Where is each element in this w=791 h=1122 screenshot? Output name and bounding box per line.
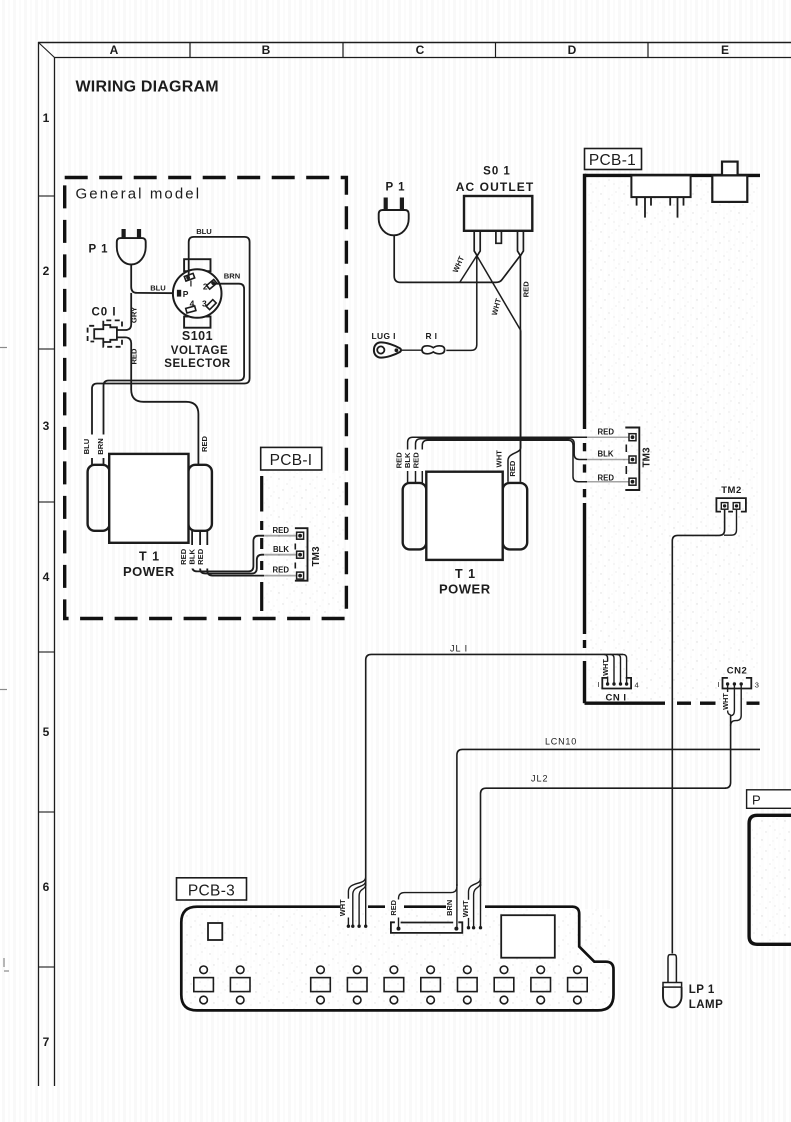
PCB-1 label box (585, 149, 642, 170)
svg-text:SELECTOR: SELECTOR (164, 358, 231, 370)
TM3 main terminal 2 (629, 456, 636, 463)
stipple texture PCB-2 area (752, 818, 791, 941)
svg-text:E: E (721, 43, 729, 57)
PCB-1 board bottom edge (with dashed sections) (585, 702, 760, 705)
svg-text:T 1: T 1 (139, 550, 160, 564)
border corner diagonal (39, 43, 55, 58)
AC outlet S01 body (464, 196, 532, 231)
transformer T1 (general) left winding (88, 465, 110, 531)
svg-text:2: 2 (203, 281, 208, 291)
row divider 2/3 (39, 348, 55, 350)
svg-text:RED: RED (598, 427, 615, 436)
push switch S5 (384, 966, 404, 1004)
svg-text:P 1: P 1 (89, 244, 109, 256)
S101 terminal 2 (207, 279, 217, 289)
svg-text:RED: RED (522, 281, 531, 298)
PCB-3 wire pins (WHT group dots) (347, 925, 368, 928)
label RED (at T1) (511, 459, 520, 478)
label BLU (at T1) (84, 435, 94, 459)
PCB-3 connector pins (397, 927, 459, 931)
lamp LP1 (663, 955, 682, 1008)
wire WHT P1 plug to S01 right pin (394, 236, 520, 282)
svg-text:3: 3 (43, 419, 50, 433)
svg-text:B: B (262, 43, 271, 57)
svg-text:BLU: BLU (196, 227, 212, 236)
svg-text:R I: R I (426, 331, 438, 341)
svg-text:General model: General model (76, 186, 202, 203)
wire BRN S101 pin2 right and down to T1 (104, 284, 245, 465)
svg-text:BLK: BLK (597, 450, 613, 459)
svg-text:T 1: T 1 (455, 567, 476, 581)
wire BLK T1 to TM3 terminal 2 (general) (200, 531, 296, 574)
IC pins (637, 197, 684, 218)
svg-text:WHT: WHT (461, 900, 470, 917)
labels RED BLK RED (T1m top-left) (397, 450, 424, 472)
stipple texture inside general PCB-1 (264, 473, 344, 615)
CN2 pins (726, 682, 743, 685)
wire BLK T1m to TM3 terminal 2 (416, 439, 630, 483)
PCB-1 label box (general) (261, 447, 322, 470)
wire P1 down to BLU junction (131, 264, 177, 293)
svg-text:RED: RED (389, 899, 398, 915)
transformer T1 (middle) core (426, 472, 502, 560)
svg-text:7: 7 (43, 1035, 50, 1049)
svg-text:GRY: GRY (130, 307, 139, 323)
PCB-2 label box (747, 790, 791, 809)
svg-text:1: 1 (43, 111, 50, 125)
wire JL2 horizontal to PCB-3 (481, 788, 727, 886)
label WHT (CN2) (724, 693, 732, 710)
PCB-1 board left edge (with dashed sections) (583, 174, 586, 704)
svg-text:BLK: BLK (273, 545, 289, 554)
svg-text:4: 4 (43, 570, 50, 584)
wire RED T1m to TM3 terminal 1 (408, 437, 629, 483)
wire BLU S101 pin1 up over to right and down to T1 (92, 237, 250, 465)
small square component on PCB-3 (208, 923, 222, 940)
wire LCN10 split RED branch into PCB-3 (399, 887, 457, 929)
wire CN2 bundle down to JL2 (725, 715, 731, 788)
svg-text:LUG I: LUG I (372, 331, 396, 341)
border inner top line (54, 57, 791, 59)
push switch S4 (347, 966, 367, 1004)
svg-text:I: I (718, 680, 720, 689)
column divider D/E (647, 43, 649, 58)
push switch S1 (194, 966, 214, 1004)
svg-text:3: 3 (755, 681, 759, 690)
push switch S2 (230, 966, 250, 1004)
wire WHT diagonal S01 left pin to P1 wire (460, 256, 477, 283)
connector C01 dashed mating outline (88, 320, 122, 346)
connector CN2 bracket (723, 678, 752, 689)
transformer T1 (middle) left winding (403, 483, 427, 550)
svg-text:C: C (416, 43, 425, 57)
svg-text:JL2: JL2 (531, 774, 549, 784)
svg-text:D: D (568, 43, 577, 57)
S101 terminal 3 (206, 300, 216, 310)
row divider 6/7 (39, 966, 55, 968)
svg-text:CN I: CN I (606, 693, 627, 704)
PCB-1 board top edge (585, 174, 761, 177)
plug P1 (general) (117, 229, 146, 265)
push switch S3 (311, 966, 331, 1004)
svg-text:BRN: BRN (224, 272, 240, 281)
svg-text:3: 3 (202, 298, 207, 308)
column divider B/C (342, 43, 344, 58)
svg-text:LAMP: LAMP (689, 999, 724, 1011)
svg-text:TM3: TM3 (311, 546, 322, 566)
svg-text:LP 1: LP 1 (689, 984, 715, 996)
PCB-2 board outline (749, 815, 791, 944)
svg-text:RED: RED (196, 548, 205, 565)
svg-text:4: 4 (635, 681, 639, 690)
S01 right pin (518, 231, 524, 256)
svg-text:AC OUTLET: AC OUTLET (456, 180, 535, 194)
wire TM2 right terminal (724, 509, 737, 535)
label BRN (at T1) (99, 435, 109, 459)
svg-text:WHT: WHT (721, 693, 730, 710)
push switch S9 (531, 966, 551, 1004)
wire RED C01 down to T1 right winding (117, 337, 198, 464)
wire RED S01 right pin down to T1 right winding (519, 256, 521, 482)
General model dashed enclosure box (65, 178, 347, 619)
svg-text:2: 2 (43, 264, 50, 278)
S101 terminal P (177, 290, 181, 297)
push switch S8 (494, 966, 514, 1004)
push switch S6 (421, 966, 441, 1004)
svg-text:RED: RED (273, 566, 290, 575)
wire WHT jog into T1 right winding (508, 330, 521, 482)
wire LUG1 to R1 (401, 349, 422, 351)
PCB-3 board outline (181, 907, 613, 1011)
svg-text:LCN10: LCN10 (545, 737, 577, 747)
plug P1 (middle) (379, 198, 409, 236)
CN1 pins (606, 682, 628, 685)
svg-text:CN2: CN2 (727, 666, 748, 677)
svg-text:RED: RED (598, 473, 615, 482)
svg-text:BRN: BRN (445, 900, 454, 916)
border outer top line (38, 42, 791, 44)
svg-text:P: P (752, 792, 761, 807)
connector CN1 bracket (602, 678, 631, 689)
column divider C/D (495, 43, 497, 58)
TM3 (general) terminal 1 (297, 532, 304, 539)
svg-text:RED: RED (412, 452, 421, 469)
column divider A/B (189, 43, 191, 58)
TM3 main terminal 3 (629, 478, 636, 485)
svg-text:RED: RED (273, 526, 290, 535)
wires JL1 fan into CN1 (604, 654, 627, 684)
svg-text:POWER: POWER (439, 582, 491, 597)
svg-text:BLU: BLU (82, 438, 91, 454)
placeholder groups (65, 178, 347, 619)
S101 terminal 4 (186, 306, 196, 313)
svg-text:S0 1: S0 1 (483, 166, 511, 178)
row divider 5/6 (39, 811, 55, 813)
S101 terminal 1 (184, 273, 194, 281)
S01 left pin (474, 231, 480, 256)
wire RED T1 to TM3 terminal 3 (general) (207, 531, 296, 576)
ring terminal LUG1 (374, 342, 401, 357)
wire TM2 left terminal down to LP1 lamp (672, 509, 724, 953)
stipple texture PCB-1 area (587, 178, 759, 701)
svg-text:JL I: JL I (450, 644, 468, 654)
stipple texture PCB-3 area (183, 909, 611, 1009)
svg-text:4: 4 (190, 298, 195, 308)
wires JL2 fan into PCB-3 (WHT group 2) (469, 878, 481, 928)
push switch S7 (458, 966, 478, 1004)
TM3 (general) bracket dashed left edge (294, 544, 296, 569)
svg-text:P 1: P 1 (386, 182, 406, 194)
PCB-3 top edge dashes between wire groups (368, 905, 573, 908)
wires JL1 fan into PCB-3 (WHT group) (348, 877, 365, 926)
wire LCN10 horizontal (457, 749, 760, 886)
labels RED BLK RED (general T1 bottom) (181, 545, 209, 569)
wire WHT long diagonal S01 left pin to T1 (477, 256, 521, 331)
transformer T1 (middle) right winding (503, 483, 528, 550)
row divider 1/2 (39, 195, 55, 197)
wire RED T1m to TM3 terminal 3 (422, 440, 629, 483)
svg-text:WHT: WHT (601, 659, 610, 676)
svg-text:PCB-3: PCB-3 (188, 882, 235, 899)
border inner left line (54, 57, 56, 1086)
svg-text:RED: RED (508, 460, 517, 477)
PCB-3 connector inner line (401, 922, 454, 924)
svg-text:BLU: BLU (150, 283, 166, 292)
connector component with tab on PCB-1 top edge (712, 162, 747, 202)
terminal block TM2 (716, 498, 746, 512)
svg-text:WHT: WHT (494, 450, 503, 468)
svg-text:WHT: WHT (338, 899, 347, 916)
svg-text:S101: S101 (182, 329, 213, 343)
label WHT (CN1) (604, 662, 612, 677)
svg-text:BRN: BRN (96, 438, 105, 454)
border outer left line (38, 42, 40, 1086)
IC component on PCB-1 top edge (631, 175, 690, 197)
terminal strip TM3 (main) bracket (625, 428, 639, 491)
label WHT (at T1) (497, 450, 506, 469)
transformer T1 (general) core (109, 454, 188, 543)
PCB-3 label box (177, 878, 247, 900)
svg-text:WIRING DIAGRAM: WIRING DIAGRAM (76, 79, 219, 96)
PCB-3 buttons row (194, 966, 587, 1004)
resistor R1 pictorial (422, 346, 445, 354)
PCB-3 connector bracket (391, 922, 462, 933)
svg-text:5: 5 (43, 725, 50, 739)
push switch S10 (568, 966, 588, 1004)
TM3 (general) terminal 2 (297, 551, 304, 558)
svg-text:RED: RED (130, 348, 139, 365)
large rect component on PCB-3 (501, 915, 555, 958)
PCB-3 wire pins (WHT group 2 dots) (467, 926, 482, 929)
svg-text:I: I (190, 279, 192, 289)
svg-text:POWER: POWER (123, 564, 175, 579)
TM3 (general) terminal 3 (297, 572, 304, 579)
row divider 3/4 (39, 501, 55, 503)
TM3 main dashed left edge (625, 445, 627, 475)
S01 center pin (496, 231, 502, 244)
svg-text:PCB-I: PCB-I (270, 452, 313, 469)
row divider 4/5 (39, 651, 55, 653)
svg-text:P: P (183, 289, 189, 299)
svg-text:A: A (110, 43, 119, 57)
wire GRY P1-junction down to C01 (117, 293, 131, 330)
wire LCN10 BRN branch into PCB-3 (456, 884, 458, 929)
TM3 main terminal 1 (629, 434, 636, 441)
svg-text:6: 6 (43, 880, 50, 894)
svg-text:C0 I: C0 I (92, 307, 117, 319)
svg-text:PCB-1: PCB-1 (589, 152, 636, 169)
white gaps for WHT/RED/BRN labels on PCB-3 wires (341, 899, 473, 918)
connector C01 solid plug shape (94, 325, 117, 342)
svg-text:RED: RED (200, 435, 209, 452)
voltage selector S101 (173, 259, 222, 328)
wire JL1 horizontal (366, 654, 623, 886)
registration tick marks outside frame (0, 348, 9, 972)
svg-text:TM3: TM3 (642, 447, 653, 467)
wire S01 left pin down to R1 (446, 256, 477, 351)
svg-text:VOLTAGE: VOLTAGE (171, 345, 228, 357)
PCB-1 dashed boundary inside general box (260, 476, 263, 611)
transformer T1 (general) right winding (188, 465, 212, 531)
wire RED T1 to TM3 terminal 1 (general) (192, 531, 296, 572)
terminal strip TM3 (general) bracket (295, 528, 308, 581)
wires CN2 down to JL2 (728, 684, 742, 726)
svg-text:TM2: TM2 (721, 485, 742, 496)
svg-text:I: I (597, 680, 599, 689)
